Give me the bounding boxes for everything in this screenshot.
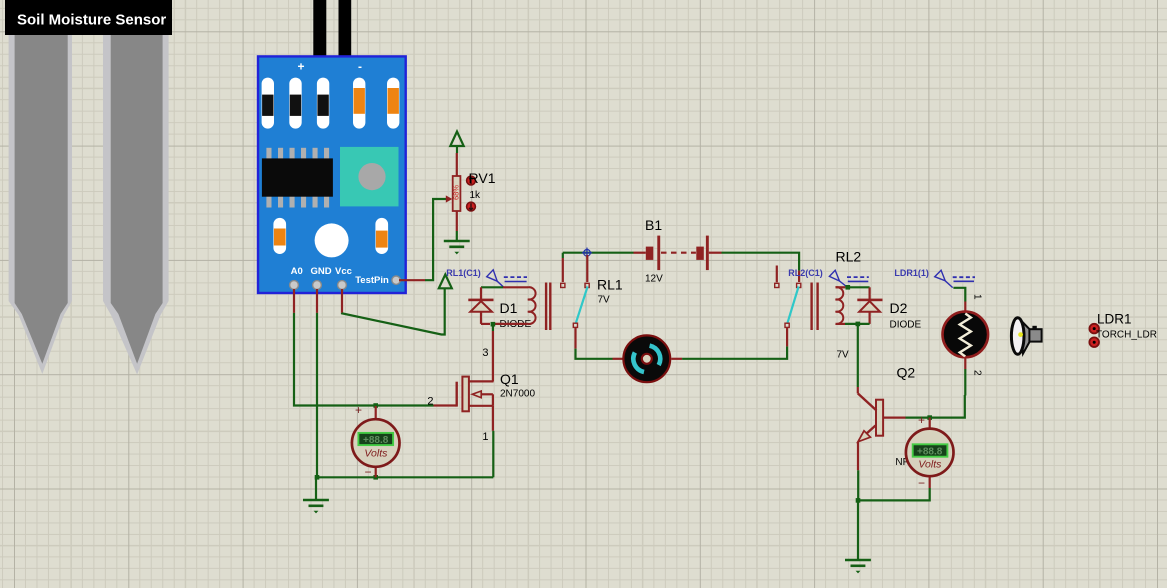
RL2 switch lever bbox=[787, 287, 798, 324]
node junction coil top bbox=[846, 285, 851, 290]
svg-text:TORCH_LDR: TORCH_LDR bbox=[1096, 330, 1157, 341]
wire Q2 emitter down bbox=[857, 442, 859, 500]
voltmeter VM1 bbox=[352, 406, 400, 477]
svg-text:RL1(C1): RL1(C1) bbox=[446, 268, 481, 278]
wire RL2 NC stub bbox=[776, 266, 778, 283]
module resistor r5 bbox=[387, 78, 399, 129]
node junction GND rail bbox=[315, 475, 320, 480]
node junction coil bottom bbox=[856, 322, 861, 327]
battery B1 bbox=[646, 236, 709, 271]
wire RL2 coil to Q2 collector bbox=[857, 326, 859, 393]
svg-text:RL1: RL1 bbox=[597, 277, 623, 293]
module resistor r2 bbox=[289, 78, 301, 129]
svg-text:1: 1 bbox=[972, 294, 983, 300]
svg-text:TestPin: TestPin bbox=[355, 275, 389, 286]
node junction emitter ground bbox=[856, 498, 861, 503]
diode D1 bbox=[468, 287, 493, 324]
probe cable + bbox=[313, 0, 326, 70]
RL2 terminal left bbox=[775, 283, 779, 287]
module resistor r1 bbox=[262, 78, 274, 129]
wire LDR top bbox=[953, 288, 965, 313]
module pad GND bbox=[313, 281, 322, 290]
svg-text:GND: GND bbox=[310, 266, 331, 277]
svg-text:Soil Moisture Sensor: Soil Moisture Sensor bbox=[17, 12, 166, 29]
svg-text:Q2: Q2 bbox=[897, 365, 916, 381]
svg-text:D1: D1 bbox=[500, 300, 518, 316]
svg-text:B1: B1 bbox=[645, 217, 662, 233]
relay coil RL1 bbox=[528, 283, 552, 331]
wire motor to RL2 pole bbox=[671, 328, 787, 359]
module pad TestPin bbox=[392, 276, 400, 284]
module resistor r3 bbox=[317, 78, 329, 129]
power terminal above RV1 bbox=[450, 132, 463, 154]
wire junction to ground bbox=[857, 500, 859, 559]
svg-text:+88.8: +88.8 bbox=[363, 435, 389, 446]
ground bottom left bbox=[303, 477, 329, 513]
svg-text:RV1: RV1 bbox=[469, 170, 496, 186]
transistor Q2 bbox=[858, 393, 883, 441]
module pad Vcc bbox=[338, 281, 347, 290]
svg-text:1k: 1k bbox=[470, 190, 482, 201]
wire D1 top bbox=[481, 286, 528, 288]
svg-text:RL2: RL2 bbox=[836, 249, 862, 265]
probe flag LDR1(1) bbox=[935, 270, 975, 287]
rail wire battery to RL2 bbox=[709, 253, 799, 282]
relay coil RL2 bbox=[810, 283, 843, 331]
RV1 terminal bottom bbox=[467, 202, 476, 211]
module pad A0 bbox=[290, 281, 299, 290]
node junction D1 Q1 drain bbox=[491, 322, 496, 327]
motor bbox=[623, 335, 670, 382]
resistor RV1 bbox=[452, 153, 461, 231]
module capacitor c2 bbox=[375, 218, 388, 254]
rail wire left to battery bbox=[563, 252, 646, 254]
svg-text:Vcc: Vcc bbox=[335, 266, 352, 277]
diode D2 bbox=[857, 287, 882, 324]
wire RL2 coil top to D2 bbox=[836, 286, 870, 288]
node junction base voltmeter bbox=[927, 415, 932, 420]
wire Q2 base to LDR bbox=[883, 395, 965, 418]
svg-text:2N7000: 2N7000 bbox=[500, 389, 535, 400]
svg-text:+88.8: +88.8 bbox=[917, 446, 943, 457]
torch actuator terminal down bbox=[1089, 337, 1099, 347]
svg-text:7V: 7V bbox=[598, 295, 611, 306]
torch lamp icon bbox=[1011, 318, 1041, 355]
wire RL1 NO stub bbox=[586, 255, 588, 282]
svg-text:−: − bbox=[918, 476, 925, 490]
module white circle bbox=[315, 223, 349, 257]
wire RL2 coil bottom to D2 bbox=[836, 323, 870, 325]
wire Q1 drain bbox=[492, 326, 494, 381]
svg-text:Volts: Volts bbox=[364, 448, 388, 460]
power terminal near RL1 bbox=[439, 275, 452, 289]
RV1 wiper arrow bbox=[446, 195, 453, 202]
module resistor r4 bbox=[353, 78, 365, 129]
probe flag RL1(C1) bbox=[487, 270, 527, 288]
svg-text:DIODE: DIODE bbox=[890, 320, 922, 331]
wire Q1 source down bbox=[492, 406, 495, 478]
node junction voltmeter minus bbox=[373, 475, 378, 480]
RL1 terminal left bbox=[561, 283, 565, 287]
RL1 moving terminal bbox=[573, 323, 577, 327]
svg-text:LDR1(1): LDR1(1) bbox=[894, 268, 929, 278]
RV1 terminal top bbox=[467, 176, 476, 185]
wire rail corner to RL1 common bbox=[562, 253, 564, 282]
svg-text:D2: D2 bbox=[890, 300, 908, 316]
svg-text:A0: A0 bbox=[291, 266, 303, 277]
wire GND pad down bbox=[316, 289, 318, 477]
svg-text:Volts: Volts bbox=[918, 459, 942, 471]
bottom rail wire bbox=[317, 476, 493, 478]
svg-text:+: + bbox=[918, 413, 925, 427]
wire RL1 pole to motor bbox=[576, 328, 623, 359]
svg-text:12V: 12V bbox=[645, 274, 663, 285]
svg-text:+: + bbox=[297, 60, 304, 74]
wire Vcc to power arrow bbox=[342, 289, 445, 335]
title bar bbox=[5, 0, 172, 35]
svg-text:-: - bbox=[358, 60, 362, 74]
svg-text:68%: 68% bbox=[452, 185, 461, 200]
svg-text:2: 2 bbox=[427, 396, 433, 408]
svg-text:3: 3 bbox=[482, 347, 488, 359]
RL1 terminal right bbox=[585, 283, 589, 287]
voltmeter VM2 bbox=[858, 418, 954, 501]
node marker on rail bbox=[582, 248, 592, 258]
sensor module board bbox=[258, 56, 406, 293]
ground under RV1 bbox=[444, 241, 470, 254]
ground bottom right bbox=[845, 560, 871, 573]
node junction gate-voltmeter bbox=[373, 403, 378, 408]
probe flag RL2(C1) bbox=[829, 270, 868, 287]
soil probe left bbox=[9, 34, 72, 374]
wire TestPin to RV1 wiper bbox=[399, 199, 447, 280]
wire D1 bottom bbox=[481, 323, 528, 325]
svg-text:1: 1 bbox=[482, 431, 488, 443]
transistor Q1 bbox=[457, 377, 494, 412]
RL1 switch lever bbox=[576, 287, 588, 324]
LDR1 photoresistor bbox=[943, 312, 989, 358]
RL2 terminal right bbox=[797, 283, 801, 287]
svg-text:7V: 7V bbox=[837, 350, 850, 361]
module capacitor c1 bbox=[273, 218, 286, 254]
svg-text:+: + bbox=[355, 403, 362, 417]
module IC chip bbox=[262, 148, 333, 208]
probe cable - bbox=[339, 0, 352, 67]
torch actuator terminal up bbox=[1089, 324, 1099, 334]
soil probe right bbox=[103, 34, 169, 375]
svg-text:2: 2 bbox=[972, 370, 983, 376]
wire RV1 to ground bbox=[456, 231, 458, 241]
RL2 moving terminal bbox=[785, 323, 789, 327]
wire LDR bottom bbox=[964, 357, 966, 396]
module trim potentiometer bbox=[340, 147, 399, 207]
svg-text:RL2(C1): RL2(C1) bbox=[788, 268, 823, 278]
wire A0 to Q1 gate bbox=[294, 289, 457, 406]
svg-text:Q1: Q1 bbox=[500, 371, 519, 387]
svg-text:LDR1: LDR1 bbox=[1097, 312, 1132, 327]
